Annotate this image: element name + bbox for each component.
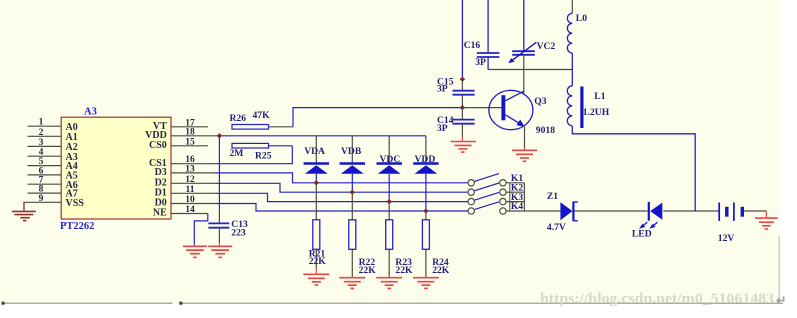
wire VDD rail down to C13 <box>218 136 220 223</box>
svg-text:VDD: VDD <box>415 154 436 165</box>
resistor R23 22K <box>386 202 413 277</box>
wire NE pin14 to ground <box>194 214 208 245</box>
wire D1 row with jog to K3 row <box>215 193 468 201</box>
svg-text:2: 2 <box>39 128 44 138</box>
svg-text:9018: 9018 <box>536 125 555 136</box>
svg-text:47K: 47K <box>253 110 271 121</box>
svg-text:VDA: VDA <box>304 146 325 157</box>
junction dot VDC/K3 <box>387 199 392 204</box>
switch K4 <box>468 201 524 214</box>
svg-text:3P: 3P <box>437 84 448 95</box>
switch bus vertical and label box edge <box>510 183 525 211</box>
svg-text:22K: 22K <box>309 256 327 267</box>
wire R25 to CS1 row <box>215 146 292 164</box>
svg-text:LED: LED <box>632 229 652 240</box>
resistor R21 22K <box>309 183 327 268</box>
inductor L1 1.2UH <box>567 70 609 129</box>
wire D3 row with jog to K1 row <box>215 173 468 183</box>
IC U-A3 PT2262 body <box>61 117 171 219</box>
ground under R24 <box>413 277 439 289</box>
svg-text:L1: L1 <box>594 91 605 102</box>
battery 12V <box>718 203 743 244</box>
VDD rail wire (pin18 row) <box>219 135 426 137</box>
switch K3 <box>468 192 524 205</box>
svg-text:Z1: Z1 <box>547 191 558 202</box>
wire from L1 bottom to output row <box>572 126 695 211</box>
junction dot pin18/C13 <box>217 133 222 138</box>
svg-text:1.2UH: 1.2UH <box>583 107 610 118</box>
svg-text:22K: 22K <box>432 265 450 276</box>
wire VC2 down to Q3 collector <box>523 55 525 94</box>
svg-text:VDC: VDC <box>380 154 401 165</box>
capacitor C16 3P <box>464 0 500 70</box>
IC designator A3 <box>84 107 97 118</box>
svg-text:4.7V: 4.7V <box>547 222 566 233</box>
output row wire bus to Z1 <box>524 210 560 212</box>
zener Z1 4.7V <box>547 191 578 233</box>
svg-text:D3: D3 <box>155 167 167 178</box>
IC left pin wires 1-8 <box>28 126 62 193</box>
svg-text:PT2262: PT2262 <box>60 221 94 232</box>
transistor Q3 9018 <box>489 90 555 136</box>
junction dot VDB/K2 <box>350 190 355 195</box>
capacitor C14 3P <box>437 108 475 137</box>
switch K1 <box>468 173 524 186</box>
junction dot above C15 <box>460 77 465 82</box>
wire top feed to C15 node <box>461 0 463 79</box>
ground under R21 <box>303 268 329 285</box>
right pin stub wires <box>171 127 219 214</box>
resistor R25 2M (pin15-pin16) <box>230 143 272 161</box>
svg-text:VDB: VDB <box>341 146 362 157</box>
resistor R24 22K <box>422 211 449 277</box>
junction dot base node <box>460 105 465 110</box>
diode VDC <box>377 136 402 202</box>
wire Q3 emitter to ground <box>524 127 526 148</box>
svg-text:2M: 2M <box>230 148 244 159</box>
svg-text:22K: 22K <box>359 265 377 276</box>
ground at Q3 emitter <box>512 148 537 161</box>
svg-text:Q3: Q3 <box>534 96 546 107</box>
svg-text:1: 1 <box>39 118 44 128</box>
svg-text:C16: C16 <box>464 40 481 51</box>
capacitor C13 223 <box>208 219 248 242</box>
switch K2 <box>468 182 524 195</box>
diode VDD <box>413 136 438 211</box>
svg-text:12V: 12V <box>718 233 735 244</box>
svg-text:K4: K4 <box>511 201 523 212</box>
junction dot VDA/K1 <box>314 180 319 185</box>
svg-text:A3: A3 <box>84 107 97 118</box>
ground at pin 9 (maroon) <box>12 202 36 220</box>
svg-text:CS0: CS0 <box>149 140 167 151</box>
svg-text:VSS: VSS <box>66 198 85 209</box>
sheet border right line <box>778 236 780 303</box>
wire D2 row with jog to K2 row <box>215 183 468 192</box>
wire LED to battery <box>663 210 719 212</box>
svg-text:22K: 22K <box>395 265 413 276</box>
svg-text:https://blog.csdn.net/m0_51061: https://blog.csdn.net/m0_51061483 <box>540 291 774 307</box>
resistor R26 47K (pin17/VT) <box>230 110 294 129</box>
LED diode <box>632 202 662 240</box>
ground at NE <box>183 245 207 258</box>
wire C16 to L0 (tank bottom) <box>488 69 572 71</box>
IC right pin names VT,VDD,CS0,CS1,D3,D2,D1,D0,NE <box>145 121 167 219</box>
wire D0 row with jog to K4 row <box>215 204 468 212</box>
inductor L0 <box>567 0 587 70</box>
ground at battery <box>755 211 778 229</box>
wire R26 to base node <box>293 108 462 127</box>
diode VDA <box>304 136 329 183</box>
IC left pin names A0-A7,VSS <box>66 122 85 209</box>
svg-text:NE: NE <box>153 208 167 219</box>
right pin numbers 17,18,15,16,13,12,11,10,14 <box>185 118 195 215</box>
svg-text:R26: R26 <box>230 113 247 124</box>
wire battery to ground <box>744 210 767 212</box>
ground under R23 <box>376 277 402 289</box>
variable capacitor VC2 <box>508 0 555 63</box>
svg-text:223: 223 <box>231 227 246 238</box>
capacitor C15 3P <box>437 76 475 107</box>
svg-text:3: 3 <box>39 138 44 148</box>
svg-text:9: 9 <box>39 194 44 204</box>
diode VDB <box>340 136 365 192</box>
wire Z1 to LED <box>575 210 648 212</box>
IC part number PT2262 <box>60 221 94 232</box>
ground under C13 <box>208 242 232 257</box>
svg-text:3P: 3P <box>475 57 486 68</box>
svg-text:↵: ↵ <box>776 294 786 308</box>
ground under R22 <box>339 277 365 289</box>
svg-text:R25: R25 <box>255 151 272 162</box>
resistor R22 22K <box>349 192 376 276</box>
watermark <box>540 291 786 307</box>
IC pin 9 wire <box>24 202 61 211</box>
svg-text:3P: 3P <box>437 123 448 134</box>
svg-text:L0: L0 <box>576 13 587 24</box>
svg-text:VC2: VC2 <box>537 41 556 52</box>
ground under C14 <box>451 137 477 153</box>
wire base node to Q3 base <box>462 107 501 109</box>
left pin numbers 1-9 <box>39 118 44 204</box>
sheet border bottom line <box>2 302 784 305</box>
junction dot VDD/K4 <box>423 208 428 213</box>
